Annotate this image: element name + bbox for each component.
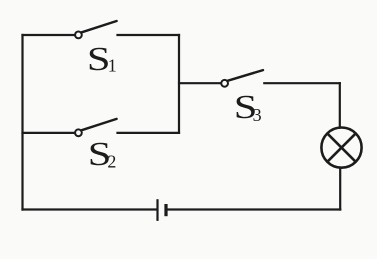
wire top rail right (S1 contact to right corner)	[118, 34, 180, 36]
wire bottom left (left vertical to battery)	[23, 208, 157, 210]
wire S2 rail left	[23, 132, 76, 134]
lamp L (circle with X)	[321, 128, 361, 168]
label S2	[88, 136, 117, 173]
wire right vertical upper (to lamp)	[339, 83, 341, 127]
switch S1 (open knife switch)	[75, 21, 117, 38]
wire S2 rail right	[118, 132, 180, 134]
wire bottom right (battery to right vertical)	[168, 208, 340, 210]
switch S3 (open knife switch)	[221, 70, 263, 87]
wire right vertical of parallel section	[178, 35, 180, 133]
svg-text:3: 3	[253, 105, 262, 125]
switch S2 (open knife switch)	[75, 119, 117, 136]
wire top rail left (from left vertical to S1 pivot)	[23, 34, 76, 36]
battery cell (short thick plate)	[164, 204, 167, 216]
wire S3 right rail	[264, 82, 340, 84]
svg-text:2: 2	[107, 151, 116, 171]
label S1	[87, 41, 117, 78]
wire S3 feed from junction node	[179, 82, 221, 84]
battery cell (long plate)	[156, 199, 158, 221]
wire right vertical lower (lamp to bottom)	[339, 168, 341, 210]
svg-text:1: 1	[108, 56, 117, 76]
wire left vertical	[21, 35, 23, 210]
label S3	[234, 89, 262, 126]
